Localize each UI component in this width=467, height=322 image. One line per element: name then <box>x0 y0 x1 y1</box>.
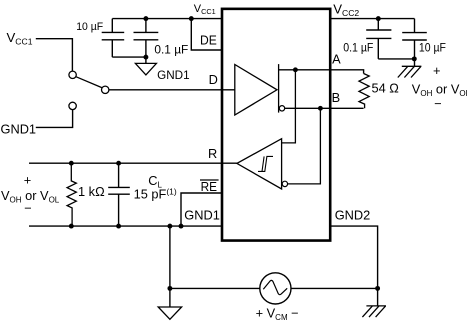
svg-text:−: − <box>434 96 441 111</box>
node rail-RE junction <box>179 224 184 229</box>
wire VCM left <box>170 287 260 289</box>
node B internal junction <box>318 106 323 111</box>
capacitor C2 0.1uF left <box>134 19 159 64</box>
wire GND1 rail bottom <box>29 225 222 227</box>
wire VCM right <box>291 287 378 289</box>
driver D1 triangle <box>235 65 277 116</box>
svg-text:10 µF: 10 µF <box>76 21 103 33</box>
ground triangle bottom left <box>169 288 171 307</box>
receiver R1 triangle <box>237 139 282 189</box>
node A internal junction <box>293 67 298 72</box>
svg-text:GND1: GND1 <box>1 122 37 137</box>
svg-text:GND1: GND1 <box>184 208 220 223</box>
node VCC1 junction <box>189 16 194 21</box>
source VCM circle <box>260 273 291 304</box>
resistor RL 1k <box>67 163 76 226</box>
node VCC2 junction <box>376 16 381 21</box>
node rail-down junction <box>167 224 172 229</box>
node VCM right junction <box>375 286 380 291</box>
wire receiver input B <box>288 108 321 184</box>
chassis ground bottom right <box>362 306 386 317</box>
svg-text:54 Ω: 54 Ω <box>372 81 400 96</box>
driver output bar <box>278 64 280 113</box>
svg-text:A: A <box>332 52 341 67</box>
wire GND1 throw <box>36 110 73 128</box>
wire DE tie to VCC1 <box>191 19 222 50</box>
wire GND2 down <box>330 226 377 306</box>
wire R output <box>29 162 237 164</box>
node rail-CL junction <box>116 224 121 229</box>
svg-text:RE: RE <box>201 179 217 194</box>
wire down to VCM <box>169 226 171 288</box>
wire B internal <box>285 107 330 109</box>
svg-text:0.1 µF: 0.1 µF <box>154 43 188 57</box>
node right caps junction <box>412 56 417 61</box>
svg-text:GND2: GND2 <box>335 208 371 223</box>
svg-text:1 kΩ: 1 kΩ <box>78 184 105 199</box>
capacitor C3 0.1uF right <box>366 19 391 59</box>
receiver bubble <box>282 181 287 186</box>
wire A external <box>330 70 363 74</box>
svg-text:GND1: GND1 <box>157 69 189 82</box>
svg-text:D: D <box>209 72 218 87</box>
svg-text:R: R <box>208 146 217 161</box>
sine symbol <box>263 280 287 294</box>
node cap junction top <box>143 16 148 21</box>
svg-text:0.1 µF: 0.1 µF <box>343 41 373 55</box>
ground GND1 triangle top <box>135 63 156 75</box>
node rail-RL junction <box>69 224 74 229</box>
hysteresis symbol <box>258 156 273 171</box>
svg-text:10 µF: 10 µF <box>419 42 446 54</box>
IC U1 outline <box>222 9 330 241</box>
driver inverting bubble <box>279 106 284 111</box>
wire receiver input A <box>282 70 296 143</box>
node cap junction bottom <box>143 55 148 60</box>
wire VCC2 rail <box>330 18 414 20</box>
switch throw GND1 terminal <box>69 102 76 109</box>
svg-text:−: − <box>24 201 31 216</box>
chassis ground top right <box>398 66 422 77</box>
switch pole terminal <box>102 86 109 93</box>
switch arm <box>76 77 102 88</box>
wire B external <box>330 107 363 109</box>
node VCM left junction <box>167 286 172 291</box>
wire cap bottoms <box>112 56 146 58</box>
svg-text:+: + <box>433 63 440 78</box>
node R-RL junction <box>69 161 74 166</box>
wire RE tie down <box>181 193 222 226</box>
svg-text:DE: DE <box>200 32 217 47</box>
svg-text:B: B <box>332 90 341 105</box>
wire right cap bottoms <box>378 58 414 60</box>
wire VCC1 top rail <box>112 18 222 20</box>
node R-CL junction <box>116 161 121 166</box>
switch throw VCC1 terminal <box>69 71 76 78</box>
wire A internal <box>279 69 330 71</box>
svg-text:+: + <box>24 173 31 188</box>
switch S1 <box>36 39 73 71</box>
capacitor C1 10uF left <box>102 19 125 58</box>
capacitor C4 10uF right <box>402 19 427 67</box>
capacitor CL <box>108 163 130 226</box>
resistor RT 54ohm <box>359 74 369 109</box>
wire D internal <box>109 89 235 91</box>
